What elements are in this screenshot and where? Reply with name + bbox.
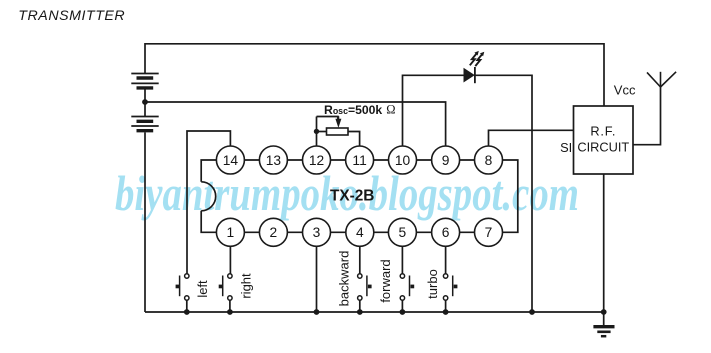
svg-text:forward: forward: [378, 259, 393, 302]
switch S5 turbo: [443, 274, 452, 300]
pin 2: [259, 218, 287, 246]
svg-text:8: 8: [485, 153, 493, 168]
switch S4 forward: [400, 274, 409, 300]
svg-text:9: 9: [442, 153, 450, 168]
IC pin circles top row: [216, 146, 502, 246]
pin 14: [216, 146, 244, 174]
pin 11: [346, 146, 374, 174]
svg-text:Ω: Ω: [386, 103, 395, 117]
wire resistor right terminal to pin11: [348, 132, 360, 147]
svg-text:R.F.: R.F.: [590, 123, 616, 138]
battery B2 (lower cells): [131, 117, 158, 131]
wire LED cathode to bottom rail: [475, 75, 532, 312]
wire pin3 to bottom rail: [316, 246, 318, 312]
wire top rail: [145, 44, 604, 106]
battery B1 (upper cells): [131, 74, 158, 88]
node rail pin3: [314, 309, 320, 315]
pin 12: [303, 146, 331, 174]
wire pin5 to forward switch: [401, 246, 403, 274]
svg-text:6: 6: [442, 225, 450, 240]
wire RF circuit bottom to ground: [603, 174, 605, 326]
wire pin4 to backward switch: [359, 246, 361, 274]
node battery tap: [142, 99, 148, 105]
pin 6: [432, 218, 460, 246]
switch S2 right: [223, 274, 232, 300]
LED D1 triangle: [464, 68, 475, 83]
svg-text:7: 7: [485, 225, 493, 240]
svg-text:11: 11: [352, 153, 366, 168]
svg-text:SI: SI: [560, 140, 572, 155]
wire pin8 to RF circuit SI: [489, 130, 574, 146]
node rail left switch: [184, 309, 190, 315]
pin 4: [346, 218, 374, 246]
switch S3 backward: [358, 274, 367, 300]
svg-text:13: 13: [266, 153, 282, 168]
wire pin10 to LED anode: [403, 75, 464, 146]
pin 13: [259, 146, 287, 174]
node rail turbo: [443, 309, 449, 315]
resistor Rosc body: [327, 128, 349, 135]
wire resistor wiper branch: [317, 117, 338, 124]
wire antenna feed: [633, 87, 661, 145]
pin 5: [388, 218, 416, 246]
RF circuit block U2: [574, 106, 634, 174]
wire pin6 to turbo switch: [445, 246, 447, 274]
wire pin12 to resistor: [316, 117, 318, 147]
resistor wiper arrow: [335, 119, 341, 128]
IC notch: [201, 182, 216, 211]
svg-text:CIRCUIT: CIRCUIT: [577, 139, 629, 154]
antenna ANT1: [647, 72, 676, 87]
svg-text:10: 10: [395, 153, 411, 168]
node resistor left: [314, 129, 319, 134]
switch S1 left: [180, 274, 189, 300]
svg-text:4: 4: [356, 225, 364, 240]
wire right switch to pin1: [229, 246, 231, 274]
svg-text:right: right: [238, 273, 253, 299]
wire pin14 loop to left switch: [187, 131, 230, 274]
node rail forward: [400, 309, 406, 315]
pin number labels: [223, 153, 493, 240]
svg-text:12: 12: [309, 153, 324, 168]
pin 7: [475, 218, 503, 246]
svg-text:TRANSMITTER: TRANSMITTER: [18, 8, 125, 24]
pin 10: [389, 146, 417, 174]
node rail LED: [529, 309, 535, 315]
svg-text:Vcc: Vcc: [614, 83, 636, 98]
svg-text:backward: backward: [336, 251, 351, 307]
wire battery minus down left side: [144, 102, 146, 117]
LED emission arrows: [470, 51, 479, 65]
svg-text:Rosc=500k: Rosc=500k: [324, 103, 382, 117]
node rail right switch: [227, 309, 233, 315]
svg-text:5: 5: [399, 225, 407, 240]
svg-text:TX-2B: TX-2B: [330, 188, 374, 205]
node rail backward: [357, 309, 363, 315]
svg-text:3: 3: [313, 225, 321, 240]
pin 8: [475, 146, 503, 174]
svg-text:2: 2: [270, 225, 278, 240]
pin 3: [303, 218, 331, 246]
wire resistor left terminal: [317, 131, 327, 133]
wire bottom rail: [145, 311, 604, 313]
wire switch bottoms to rail: [186, 300, 188, 312]
svg-text:turbo: turbo: [425, 269, 440, 299]
pin 1: [216, 218, 244, 246]
svg-text:14: 14: [223, 153, 239, 168]
node rail ground: [601, 309, 607, 315]
svg-text:1: 1: [227, 225, 235, 240]
LED cathode bar: [474, 67, 476, 83]
wire battery mid tap to pin 9: [145, 90, 446, 147]
op IC body TX-2B outline: [201, 160, 518, 232]
pin 9: [432, 146, 460, 174]
ground: [593, 327, 614, 337]
svg-text:left: left: [195, 280, 210, 298]
